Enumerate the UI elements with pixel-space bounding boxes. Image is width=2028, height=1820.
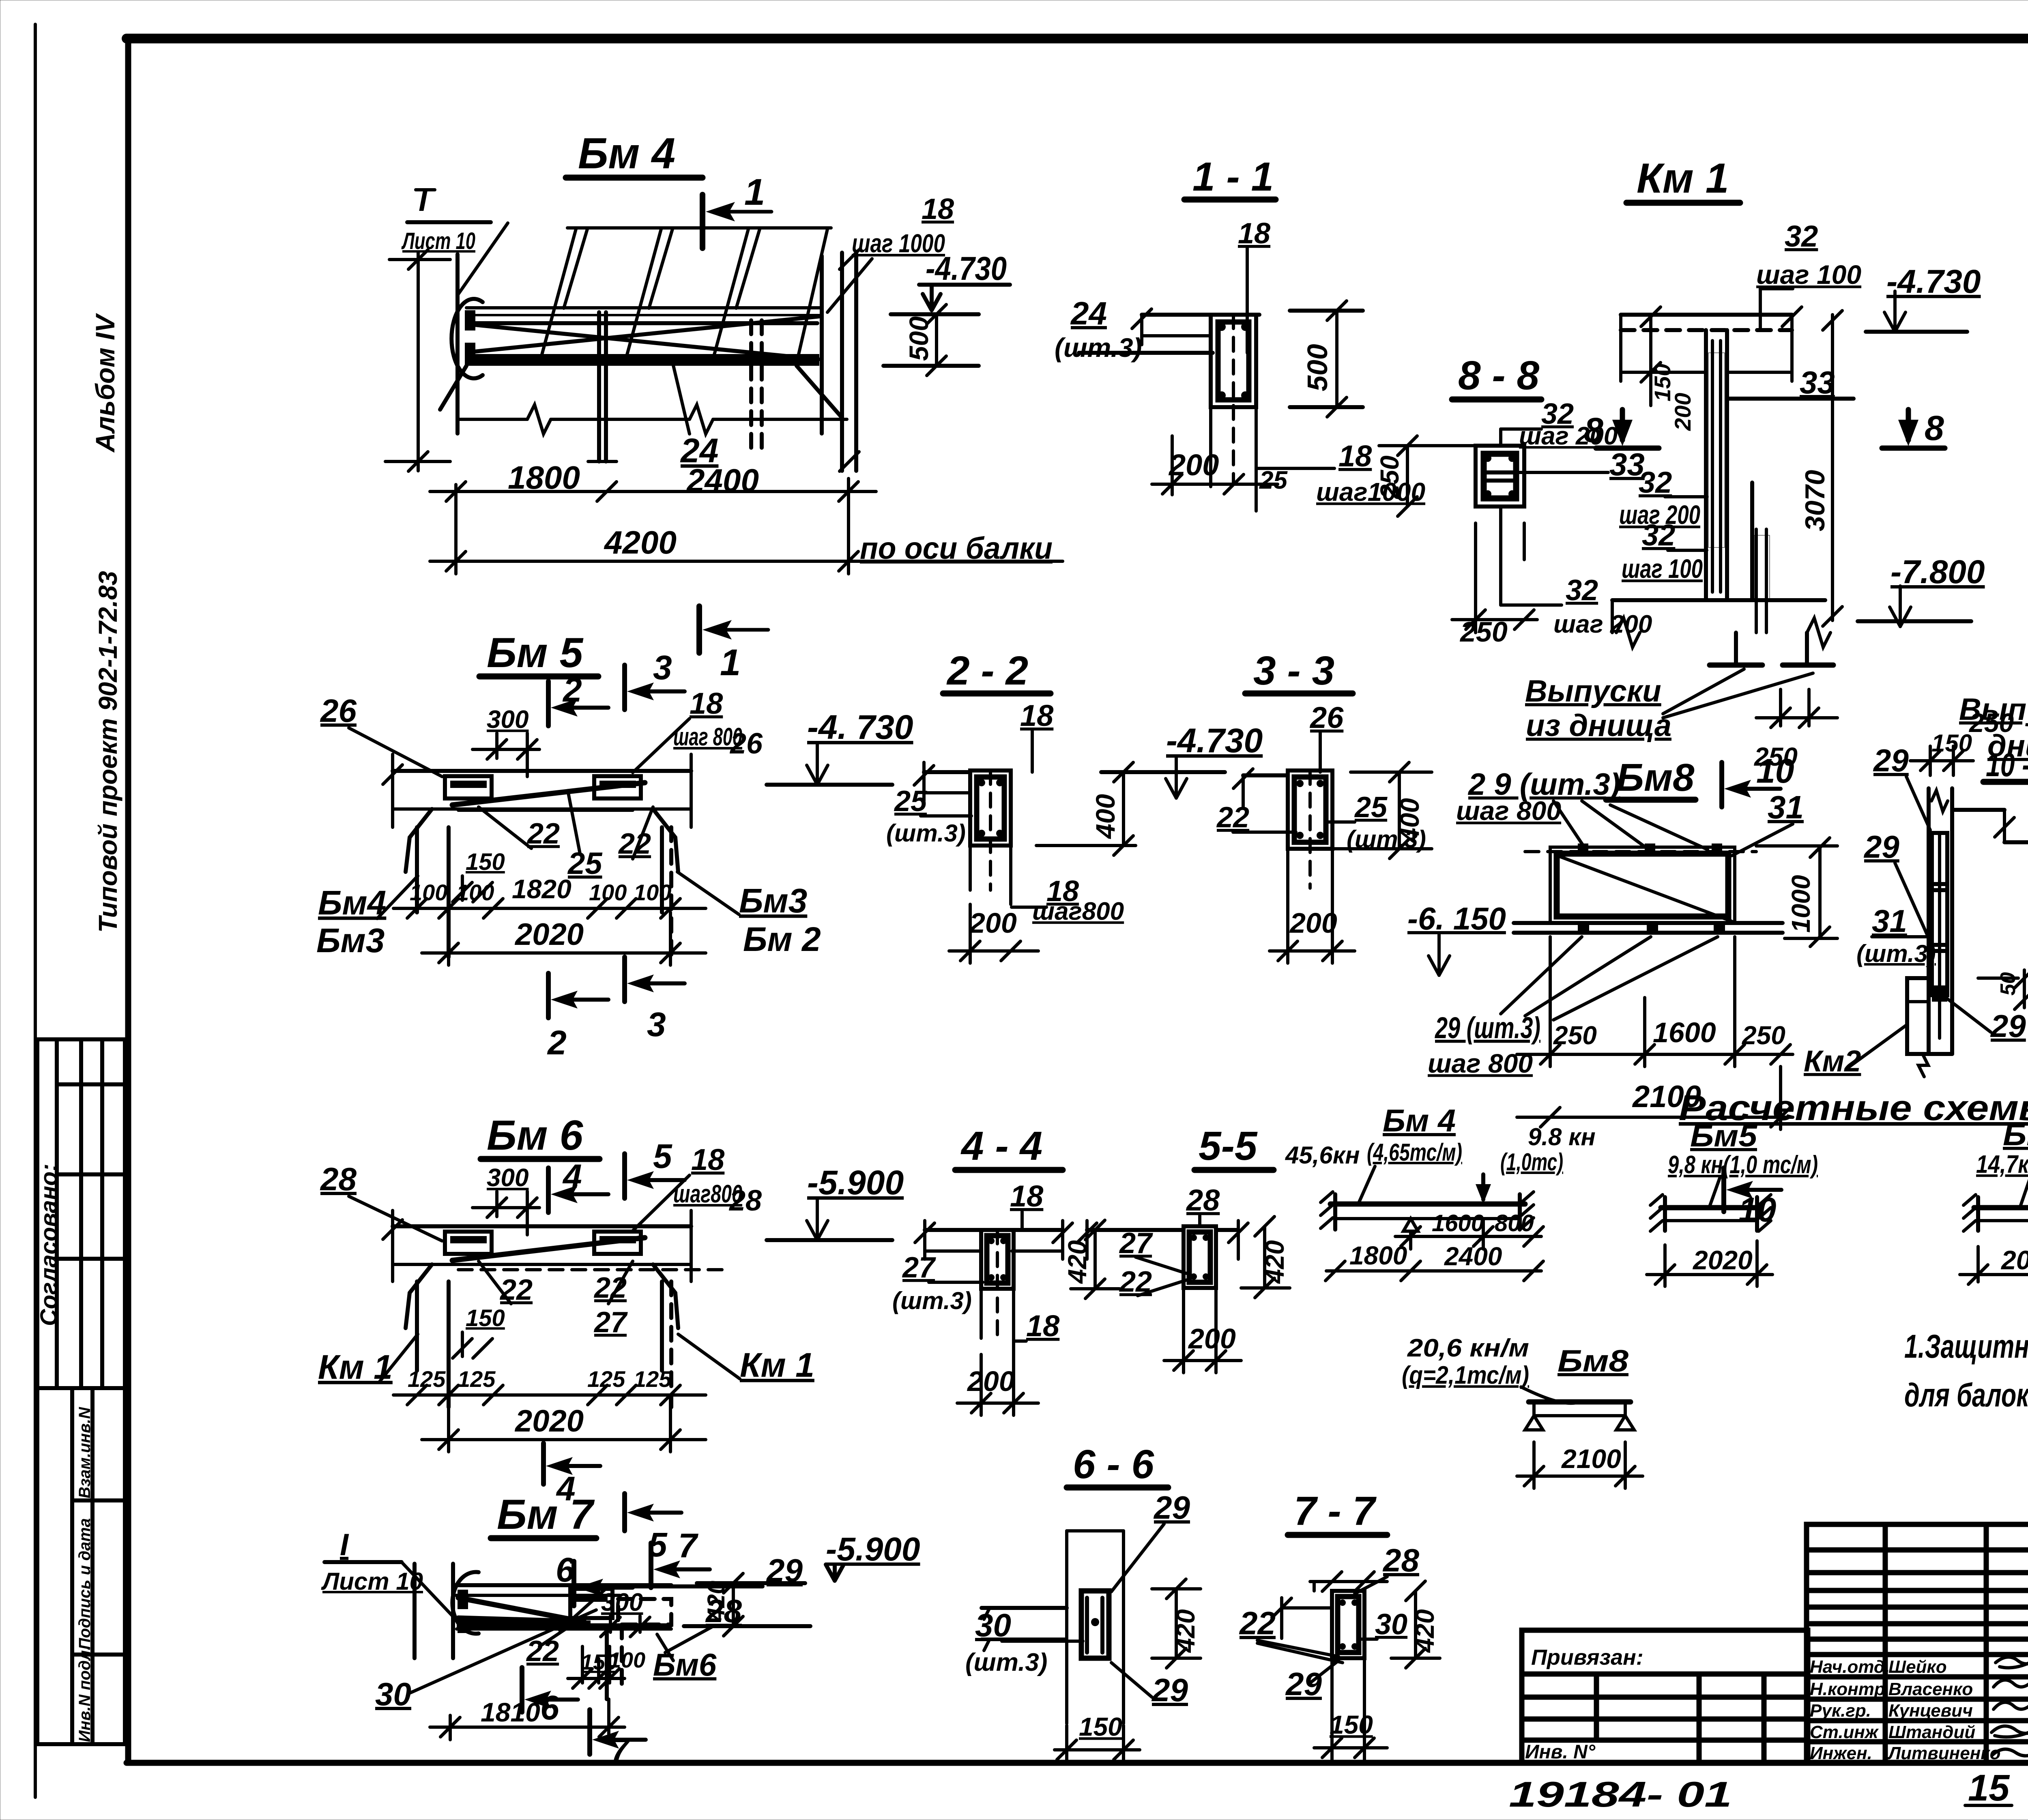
svg-text:Бм8: Бм8 (1558, 1344, 1629, 1378)
svg-text:2020: 2020 (1692, 1245, 1753, 1275)
left support flare (440, 366, 466, 410)
cut marks 2,3 bottom (546, 973, 551, 1018)
svg-text:(4,65тс/м): (4,65тс/м) (1367, 1139, 1462, 1166)
svg-text:30: 30 (375, 1676, 411, 1712)
svg-text:Лист 10: Лист 10 (401, 228, 475, 254)
svg-text:400: 400 (1090, 794, 1120, 839)
svg-text:29: 29 (1285, 1666, 1322, 1702)
stamp names (1810, 1657, 2000, 1763)
svg-text:29: 29 (1151, 1672, 1188, 1708)
svg-text:250: 250 (1459, 616, 1508, 648)
svg-text:Выпуски: Выпуски (1525, 674, 1661, 708)
svg-text:100: 100 (634, 880, 671, 905)
anchor loop at left beam end (451, 299, 483, 378)
svg-text:-5.900: -5.900 (826, 1531, 920, 1568)
svg-text:32: 32 (1642, 518, 1675, 552)
svg-text:9.8 кн: 9.8 кн (1528, 1123, 1596, 1150)
bottom dimension row 1: 1800 / 2400 (430, 490, 876, 493)
svg-text:100: 100 (456, 880, 494, 905)
1000 dim right (1818, 846, 1822, 938)
column with slab (1065, 1531, 1068, 1723)
svg-text:30: 30 (1375, 1608, 1407, 1641)
svg-text:27: 27 (593, 1306, 628, 1339)
420 dim right (1414, 1591, 1417, 1658)
top slab right (1952, 808, 2004, 812)
cut marks 2,3 top (546, 681, 551, 726)
diagonal bar (452, 783, 645, 805)
svg-text:800: 800 (1495, 1210, 1534, 1236)
svg-text:100: 100 (410, 880, 447, 905)
svg-text:Типовой проект 902-1-72.83: Типовой проект 902-1-72.83 (93, 571, 122, 933)
right end supports (820, 256, 824, 434)
svg-text:200: 200 (969, 907, 1017, 939)
base step Km2 (1907, 978, 1952, 1054)
svg-text:9,8 кн(1,0 тс/м): 9,8 кн(1,0 тс/м) (1668, 1151, 1818, 1179)
svg-text:28: 28 (320, 1161, 357, 1197)
svg-text:1.Защитный слой бетона до рабо: 1.Защитный слой бетона до рабочей.армату… (1904, 1328, 2028, 1365)
svg-text:Бм 2: Бм 2 (743, 920, 821, 958)
slab + section (924, 770, 970, 774)
svg-text:29: 29 (1873, 743, 1909, 778)
2100 dim (1517, 1116, 1793, 1119)
section (1087, 1228, 1184, 1232)
3070 dim right (1831, 315, 1834, 620)
svg-text:18: 18 (1020, 699, 1054, 732)
svg-text:50: 50 (1996, 972, 2020, 996)
column continues below (1209, 407, 1212, 487)
bottom slab/base (1612, 598, 1825, 602)
svg-text:25: 25 (1259, 466, 1288, 494)
wall + anchor (412, 1564, 417, 1658)
svg-text:150: 150 (1079, 1712, 1122, 1741)
svg-text:420: 420 (1171, 1609, 1200, 1653)
svg-text:Км2: Км2 (1804, 1044, 1861, 1078)
svg-text:22: 22 (499, 1274, 533, 1306)
svg-text:7: 7 (611, 1732, 630, 1768)
embedded plates (445, 776, 492, 798)
rebar box (1081, 1591, 1109, 1658)
200 dim bottom (1171, 436, 1174, 495)
svg-text:Км 1: Км 1 (740, 1346, 814, 1384)
svg-text:4200: 4200 (604, 524, 677, 560)
slab + column (925, 1228, 1063, 1232)
500 vertical dim right (891, 312, 979, 316)
section (1313, 1582, 1316, 1591)
svg-text:(шт.3): (шт.3) (1055, 333, 1142, 363)
420 dim (1093, 1230, 1097, 1289)
svg-text:8 - 8: 8 - 8 (1458, 353, 1539, 398)
svg-text:25: 25 (1354, 791, 1388, 824)
svg-text:1600: 1600 (1653, 1017, 1716, 1048)
svg-text:32: 32 (1566, 574, 1598, 607)
svg-text:200: 200 (1670, 393, 1695, 431)
svg-text:2020: 2020 (514, 1404, 584, 1438)
beam band (393, 769, 691, 773)
svg-text:14,7кн (1,5 тс/м): 14,7кн (1,5 тс/м) (1976, 1150, 2028, 1178)
svg-text:Инжен.: Инжен. (1810, 1743, 1872, 1763)
svg-text:1000: 1000 (1786, 875, 1815, 933)
svg-text:Бм6: Бм6 (653, 1647, 717, 1683)
svg-text:28: 28 (1382, 1542, 1419, 1578)
svg-text:150: 150 (466, 849, 505, 875)
250 bottom dim (1474, 523, 1477, 633)
main bent bar diagonals (470, 324, 819, 359)
svg-text:15: 15 (1968, 1767, 2010, 1809)
svg-text:-4.730: -4.730 (926, 250, 1007, 287)
point load arrow (1481, 1174, 1485, 1200)
signatures squiggles (1991, 1657, 2028, 1756)
slab lines left (982, 1606, 1067, 1610)
svg-text:18: 18 (690, 687, 723, 720)
bottom dims 125 x4 (393, 1393, 706, 1397)
cut mark 10 bottom (1721, 1168, 1726, 1212)
svg-text:400: 400 (1394, 798, 1424, 843)
left stamp table 2 (Взам.инв / Подпись и дата / Инв.N подл.) (37, 1388, 125, 1744)
svg-text:Власенко: Власенко (1888, 1679, 1973, 1699)
svg-text:3: 3 (647, 1005, 666, 1043)
svg-text:32: 32 (1785, 219, 1818, 253)
stirrup top rail (567, 226, 831, 230)
dims 1600/800, 1800/2400 (1409, 1231, 1412, 1249)
svg-text:1820: 1820 (512, 874, 571, 904)
svg-text:125: 125 (408, 1366, 446, 1392)
svg-text:-5.900: -5.900 (807, 1163, 904, 1202)
svg-text:200: 200 (1168, 448, 1219, 482)
svg-text:Шейко: Шейко (1888, 1657, 1947, 1677)
cut marks 6,7 bottom (520, 1668, 524, 1712)
привязан table (1522, 1630, 1808, 1763)
beam with hatch (1335, 1204, 1520, 1219)
svg-text:Бм3: Бм3 (316, 921, 385, 959)
svg-text:Км 1: Км 1 (1637, 155, 1729, 202)
svg-text:Бм5: Бм5 (1690, 1119, 1758, 1153)
svg-text:Привязан:: Привязан: (1531, 1645, 1643, 1670)
svg-text:1: 1 (720, 642, 741, 683)
beam band (393, 1224, 691, 1228)
svg-text:8: 8 (1925, 409, 1944, 448)
bottom dims 250 1600 250 (1549, 937, 1552, 1067)
column section box (1211, 315, 1256, 407)
svg-text:150: 150 (466, 1305, 505, 1331)
section (1243, 773, 1288, 777)
left stamp table 1 (Согласовано) (37, 1039, 125, 1388)
svg-text:2020: 2020 (2000, 1245, 2028, 1275)
svg-text:Бм8: Бм8 (1616, 756, 1695, 799)
svg-text:(1,0тс): (1,0тс) (1500, 1148, 1563, 1176)
svg-text:-4. 730: -4. 730 (807, 708, 913, 746)
wall edge vertical (455, 254, 460, 434)
svg-text:500: 500 (1302, 344, 1333, 391)
svg-text:Литвиненко: Литвиненко (1887, 1743, 2000, 1763)
svg-text:420: 420 (1410, 1609, 1439, 1653)
svg-text:Лист 10: Лист 10 (321, 1568, 423, 1595)
svg-text:29: 29 (1153, 1489, 1190, 1526)
svg-text:Инв.N подл.: Инв.N подл. (76, 1646, 94, 1742)
svg-text:7: 7 (678, 1526, 698, 1565)
svg-text:Штандий: Штандий (1888, 1722, 1975, 1742)
500 dim right (1290, 309, 1363, 313)
svg-text:(шт.3): (шт.3) (1856, 940, 1936, 967)
svg-text:(q=2,1тс/м): (q=2,1тс/м) (1402, 1361, 1529, 1389)
left/right support walls (406, 809, 432, 872)
svg-text:10 - 10: 10 - 10 (1986, 747, 2028, 783)
svg-text:Бм3: Бм3 (739, 882, 807, 920)
column strip (1927, 788, 1931, 1054)
svg-text:125: 125 (587, 1366, 625, 1392)
svg-text:420: 420 (702, 1581, 730, 1622)
svg-text:19184- 01: 19184- 01 (1509, 1774, 1732, 1814)
column stem with stirrup rungs (1704, 330, 1708, 600)
svg-text:24: 24 (1070, 295, 1107, 331)
supports (406, 1264, 432, 1328)
svg-text:Альбом IV: Альбом IV (90, 313, 120, 453)
svg-text:250: 250 (1375, 455, 1404, 499)
svg-text:Взам.инв.N: Взам.инв.N (76, 1407, 94, 1498)
svg-text:45,6кн: 45,6кн (1285, 1142, 1360, 1169)
bottom rails (1514, 921, 1783, 925)
svg-text:125: 125 (634, 1366, 672, 1392)
svg-text:1600: 1600 (1432, 1210, 1484, 1236)
400 dim (1122, 772, 1125, 846)
svg-text:33: 33 (1800, 365, 1835, 400)
cut marks 6,7 top (571, 1561, 576, 1606)
base anchor tees (1710, 663, 1762, 668)
supports (1333, 1194, 1337, 1230)
svg-text:2100: 2100 (1561, 1444, 1621, 1474)
name rows (1807, 1652, 2028, 1657)
svg-text:Подпись и дата: Подпись и дата (76, 1518, 94, 1650)
svg-text:4 - 4: 4 - 4 (960, 1123, 1042, 1169)
top dim marks (1310, 1580, 1387, 1583)
svg-text:26: 26 (729, 728, 763, 760)
svg-text:-7.800: -7.800 (1891, 554, 1985, 590)
svg-text:Инв. N°: Инв. N° (1525, 1741, 1596, 1763)
svg-text:420: 420 (1260, 1240, 1289, 1284)
svg-text:150: 150 (1330, 1710, 1373, 1739)
svg-text:31: 31 (1872, 903, 1907, 939)
square section (1476, 446, 1524, 507)
plate rectangle (1550, 847, 1735, 923)
svg-text:300: 300 (601, 1588, 643, 1616)
svg-text:-6. 150: -6. 150 (1407, 901, 1506, 936)
svg-text:25: 25 (567, 846, 603, 881)
slab corner lines (1142, 313, 1259, 317)
svg-text:22: 22 (1239, 1605, 1276, 1641)
svg-text:100: 100 (589, 880, 627, 905)
420 dim (1263, 1226, 1266, 1288)
svg-text:18: 18 (922, 193, 954, 225)
svg-text:22: 22 (526, 818, 560, 850)
svg-text:1: 1 (744, 172, 765, 213)
small dims near top (1649, 315, 1652, 406)
svg-text:1800: 1800 (508, 459, 580, 496)
svg-text:2400: 2400 (686, 462, 759, 498)
top slab (1621, 313, 1792, 317)
svg-text:10: 10 (1756, 752, 1794, 790)
svg-text:20,6 кн/м: 20,6 кн/м (1407, 1334, 1529, 1362)
svg-text:500: 500 (904, 316, 934, 361)
svg-text:Бм 5: Бм 5 (487, 629, 584, 676)
svg-text:(шт.3): (шт.3) (886, 820, 966, 847)
420 dim right (684, 1624, 810, 1628)
svg-text:по оси балки: по оси балки (860, 531, 1053, 566)
svg-text:шаг 100: шаг 100 (1756, 260, 1861, 290)
1810 dim (430, 1726, 625, 1729)
section cut mark 1 (top) (700, 195, 705, 248)
bottom dims row (393, 907, 706, 910)
svg-text:125: 125 (458, 1366, 496, 1392)
svg-text:Рук.гр.: Рук.гр. (1810, 1701, 1871, 1721)
small rows upper left part (1807, 1547, 2028, 1553)
svg-text:2400: 2400 (1444, 1242, 1502, 1271)
beam body (466, 306, 822, 309)
svg-text:18: 18 (1338, 439, 1372, 473)
title block: main stamp table (1807, 1524, 2028, 1763)
svg-text:Бм4: Бм4 (318, 884, 386, 922)
svg-text:18: 18 (1026, 1309, 1060, 1343)
svg-text:200: 200 (1188, 1323, 1236, 1354)
svg-text:300: 300 (487, 1164, 528, 1192)
svg-text:(шт.3): (шт.3) (965, 1648, 1047, 1676)
svg-text:I: I (340, 1528, 349, 1562)
svg-text:33: 33 (1609, 446, 1645, 482)
svg-text:Кунцевич: Кунцевич (1888, 1701, 1973, 1721)
cut marks 4,5 top (546, 1168, 551, 1213)
svg-text:2 - 2: 2 - 2 (946, 648, 1028, 693)
svg-text:шаг 800: шаг 800 (1456, 796, 1561, 826)
svg-text:2: 2 (562, 671, 582, 709)
svg-text:шаг 200: шаг 200 (1519, 422, 1618, 450)
svg-text:27: 27 (1119, 1227, 1153, 1260)
svg-text:шаг 100: шаг 100 (1622, 554, 1703, 584)
2020 dim (422, 951, 706, 955)
2020 dim (422, 1438, 706, 1441)
svg-text:200: 200 (1289, 907, 1337, 939)
svg-text:1800: 1800 (1349, 1241, 1407, 1270)
outer sheet edge line left (34, 24, 37, 1797)
250 dim bottom (1779, 689, 1782, 726)
anchor squares top (1578, 843, 1588, 852)
svg-text:Бм6: Бм6 (2003, 1118, 2028, 1152)
svg-text:Бм 4: Бм 4 (578, 129, 675, 178)
svg-text:Бм 6: Бм 6 (487, 1112, 583, 1159)
svg-text:250: 250 (1553, 1021, 1597, 1050)
beam band (455, 1583, 671, 1587)
diagonal bar + dashed (452, 1238, 645, 1260)
svg-text:Н.контр: Н.контр (1810, 1679, 1885, 1699)
stirrups below beam (597, 312, 601, 461)
svg-text:29: 29 (1990, 1008, 2026, 1044)
svg-text:6 - 6: 6 - 6 (1073, 1442, 1154, 1487)
svg-text:26: 26 (320, 693, 357, 729)
svg-text:3 - 3: 3 - 3 (1253, 648, 1334, 693)
svg-text:для балок и колонн принят 25мм: для балок и колонн принят 25мм. (1904, 1377, 2028, 1414)
svg-text:28: 28 (728, 1185, 762, 1217)
svg-text:шаг 200: шаг 200 (1553, 610, 1652, 638)
bent-up bars above/through beam (541, 229, 576, 356)
svg-text:Выпуски из: Выпуски из (1959, 692, 2028, 727)
svg-text:7 - 7: 7 - 7 (1294, 1488, 1377, 1534)
column embedded in base (1750, 483, 1754, 600)
svg-text:31: 31 (1768, 789, 1804, 825)
svg-text:4: 4 (562, 1157, 582, 1195)
svg-text:250: 250 (1742, 1021, 1785, 1050)
svg-text:3070: 3070 (1800, 470, 1830, 531)
svg-text:-4.730: -4.730 (1166, 721, 1263, 760)
cut mark 10 top (1719, 762, 1724, 807)
svg-text:Бм 4: Бм 4 (1383, 1103, 1456, 1138)
svg-text:Ст.инж: Ст.инж (1810, 1722, 1879, 1742)
section cut mark 1 (bottom) (696, 606, 702, 653)
250 left dim (1406, 446, 1409, 507)
svg-text:1 - 1: 1 - 1 (1192, 154, 1274, 200)
svg-text:Бм 7: Бм 7 (497, 1491, 595, 1538)
svg-text:шаг800: шаг800 (1032, 897, 1124, 925)
svg-text:30: 30 (975, 1607, 1011, 1643)
50 dim (1978, 977, 2018, 980)
svg-text:25: 25 (894, 785, 927, 818)
420 dim right (1175, 1589, 1178, 1658)
svg-text:18: 18 (691, 1143, 725, 1176)
400 dim right (1398, 772, 1401, 849)
svg-text:100: 100 (609, 1648, 645, 1672)
inner rebar strip (1932, 833, 1947, 995)
svg-text:22: 22 (1216, 801, 1249, 834)
left vertical dimension line (417, 253, 420, 471)
svg-text:-4.730: -4.730 (1886, 263, 1981, 300)
svg-text:28: 28 (1186, 1183, 1220, 1217)
svg-text:(шт.3): (шт.3) (892, 1287, 972, 1314)
svg-text:29: 29 (1863, 829, 1899, 865)
svg-text:6: 6 (556, 1551, 575, 1589)
right end plates (570, 1589, 612, 1618)
broken dim line through middle (458, 418, 527, 421)
svg-text:26: 26 (1309, 701, 1344, 734)
svg-text:27: 27 (902, 1251, 936, 1284)
leader lines from 29 labels to plate (1553, 801, 1586, 850)
svg-text:3: 3 (653, 648, 672, 687)
svg-text:5: 5 (653, 1137, 672, 1175)
svg-text:6: 6 (540, 1689, 560, 1727)
embedded plates (445, 1232, 492, 1254)
svg-text:18: 18 (1010, 1179, 1044, 1213)
svg-text:2: 2 (547, 1024, 567, 1062)
cut marks 4,5 bottom (541, 1443, 546, 1484)
svg-text:300: 300 (487, 706, 528, 734)
bottom dimension row 2: 4200 по оси балки (454, 485, 458, 574)
svg-text:из днища: из днища (1526, 708, 1671, 743)
svg-text:Нач.отд.: Нач.отд. (1810, 1657, 1890, 1677)
svg-text:5-5: 5-5 (1199, 1123, 1258, 1169)
svg-text:2020: 2020 (514, 917, 584, 952)
svg-text:18: 18 (1238, 217, 1270, 250)
